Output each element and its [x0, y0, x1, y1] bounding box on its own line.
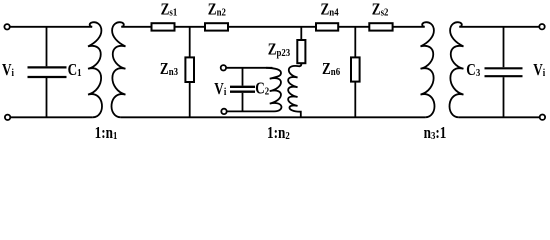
svg-text:Vi: Vi [214, 81, 226, 99]
svg-text:1:n2: 1:n2 [267, 125, 290, 143]
svg-text:Zs2: Zs2 [372, 1, 389, 19]
svg-text:Zn4: Zn4 [321, 1, 339, 19]
svg-text:Zn6: Zn6 [322, 61, 340, 79]
svg-text:C1: C1 [68, 62, 82, 80]
svg-text:Zs1: Zs1 [161, 1, 178, 19]
svg-text:Vi: Vi [533, 62, 545, 80]
svg-text:1:n1: 1:n1 [95, 125, 118, 143]
svg-text:Zn2: Zn2 [208, 1, 226, 19]
svg-text:Vi: Vi [2, 62, 14, 80]
svg-text:C2: C2 [255, 80, 269, 98]
svg-text:n3:1: n3:1 [424, 125, 447, 143]
svg-text:C3: C3 [466, 62, 480, 80]
svg-text:Zp23: Zp23 [268, 41, 291, 59]
svg-text:Zn3: Zn3 [160, 61, 178, 79]
